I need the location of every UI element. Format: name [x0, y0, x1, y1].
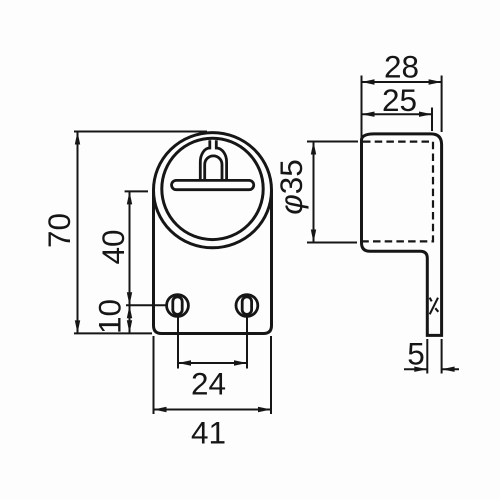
arrow 24 right — [234, 360, 247, 365]
arrow 41 right — [258, 407, 271, 412]
right screw slot — [242, 297, 251, 315]
dim 28 line — [362, 81, 442, 83]
svg-text:φ35: φ35 — [273, 159, 309, 215]
arrow phi35 bottom — [311, 230, 316, 243]
arrow 40 bottom — [127, 292, 132, 305]
arrow phi35 top — [311, 142, 316, 155]
dim 5 ext right — [441, 339, 443, 374]
outer circle (pipe boss) — [154, 133, 272, 248]
dim 28 ext left — [361, 76, 363, 139]
dim 41 ext left — [153, 336, 155, 414]
dim 28 ext right — [441, 76, 443, 133]
arrow 24 left — [178, 360, 191, 365]
svg-text:10: 10 — [92, 299, 128, 334]
arrowheads — [75, 79, 455, 412]
left screw slot — [173, 297, 182, 315]
svg-text:5: 5 — [407, 336, 425, 372]
dim 40 line — [129, 191, 131, 305]
arrow 40 top — [127, 191, 132, 204]
svg-text:40: 40 — [95, 229, 131, 264]
dim 41 ext right — [270, 336, 272, 414]
svg-text:24: 24 — [191, 366, 226, 402]
right screw hole — [236, 295, 258, 317]
side view body outline — [362, 134, 442, 336]
svg-text:28: 28 — [384, 49, 419, 85]
dimension lines — [74, 76, 459, 415]
arrow 28 left — [362, 79, 375, 84]
dim 70/10 ext bottom — [74, 332, 152, 334]
svg-text:25: 25 — [382, 82, 417, 118]
arrow 28 right — [429, 79, 442, 84]
arrow 70 top — [75, 132, 80, 145]
dim 25 ext right — [431, 108, 433, 132]
dim 40 tick — [125, 190, 148, 192]
dim 70 line — [77, 132, 79, 333]
arrow 5 right — [442, 367, 455, 372]
dim 41 line — [154, 409, 272, 411]
side view hidden bore (dashed) — [363, 142, 433, 242]
arrow 5 left — [414, 367, 427, 372]
dim phi35 ext bottom — [307, 242, 357, 244]
horizontal bar — [172, 180, 254, 189]
arrow 25 left — [362, 112, 375, 117]
arrow 41 left — [154, 407, 167, 412]
inner arch — [205, 156, 222, 180]
neck slot right line — [216, 140, 226, 180]
dim phi35 ext top — [307, 141, 358, 143]
dim 25 line — [362, 113, 433, 115]
dim 5 ext left — [426, 339, 428, 374]
dim 10 line — [129, 305, 131, 333]
svg-text:70: 70 — [41, 213, 77, 248]
arrow 70 bottom — [75, 320, 80, 333]
dim 24 ext right — [246, 317, 248, 369]
front view plate outline — [154, 190, 272, 333]
arrow 10 top — [127, 305, 132, 318]
svg-text:41: 41 — [191, 415, 226, 451]
neck slot left line — [200, 140, 210, 180]
dim 5 line right — [442, 368, 459, 370]
inner circle (pipe bore) — [162, 138, 263, 239]
dim 24 line — [178, 362, 247, 364]
left screw hole — [167, 295, 189, 317]
hole center ext line — [126, 304, 167, 306]
dim 24 ext left — [177, 317, 179, 369]
arrow 10 bottom — [127, 320, 132, 333]
dim 5 line left — [404, 368, 427, 370]
stem break X mark — [430, 298, 439, 312]
dim phi35 line — [313, 142, 315, 243]
arrow 25 right — [419, 112, 432, 117]
dim 70 ext top — [74, 131, 207, 133]
